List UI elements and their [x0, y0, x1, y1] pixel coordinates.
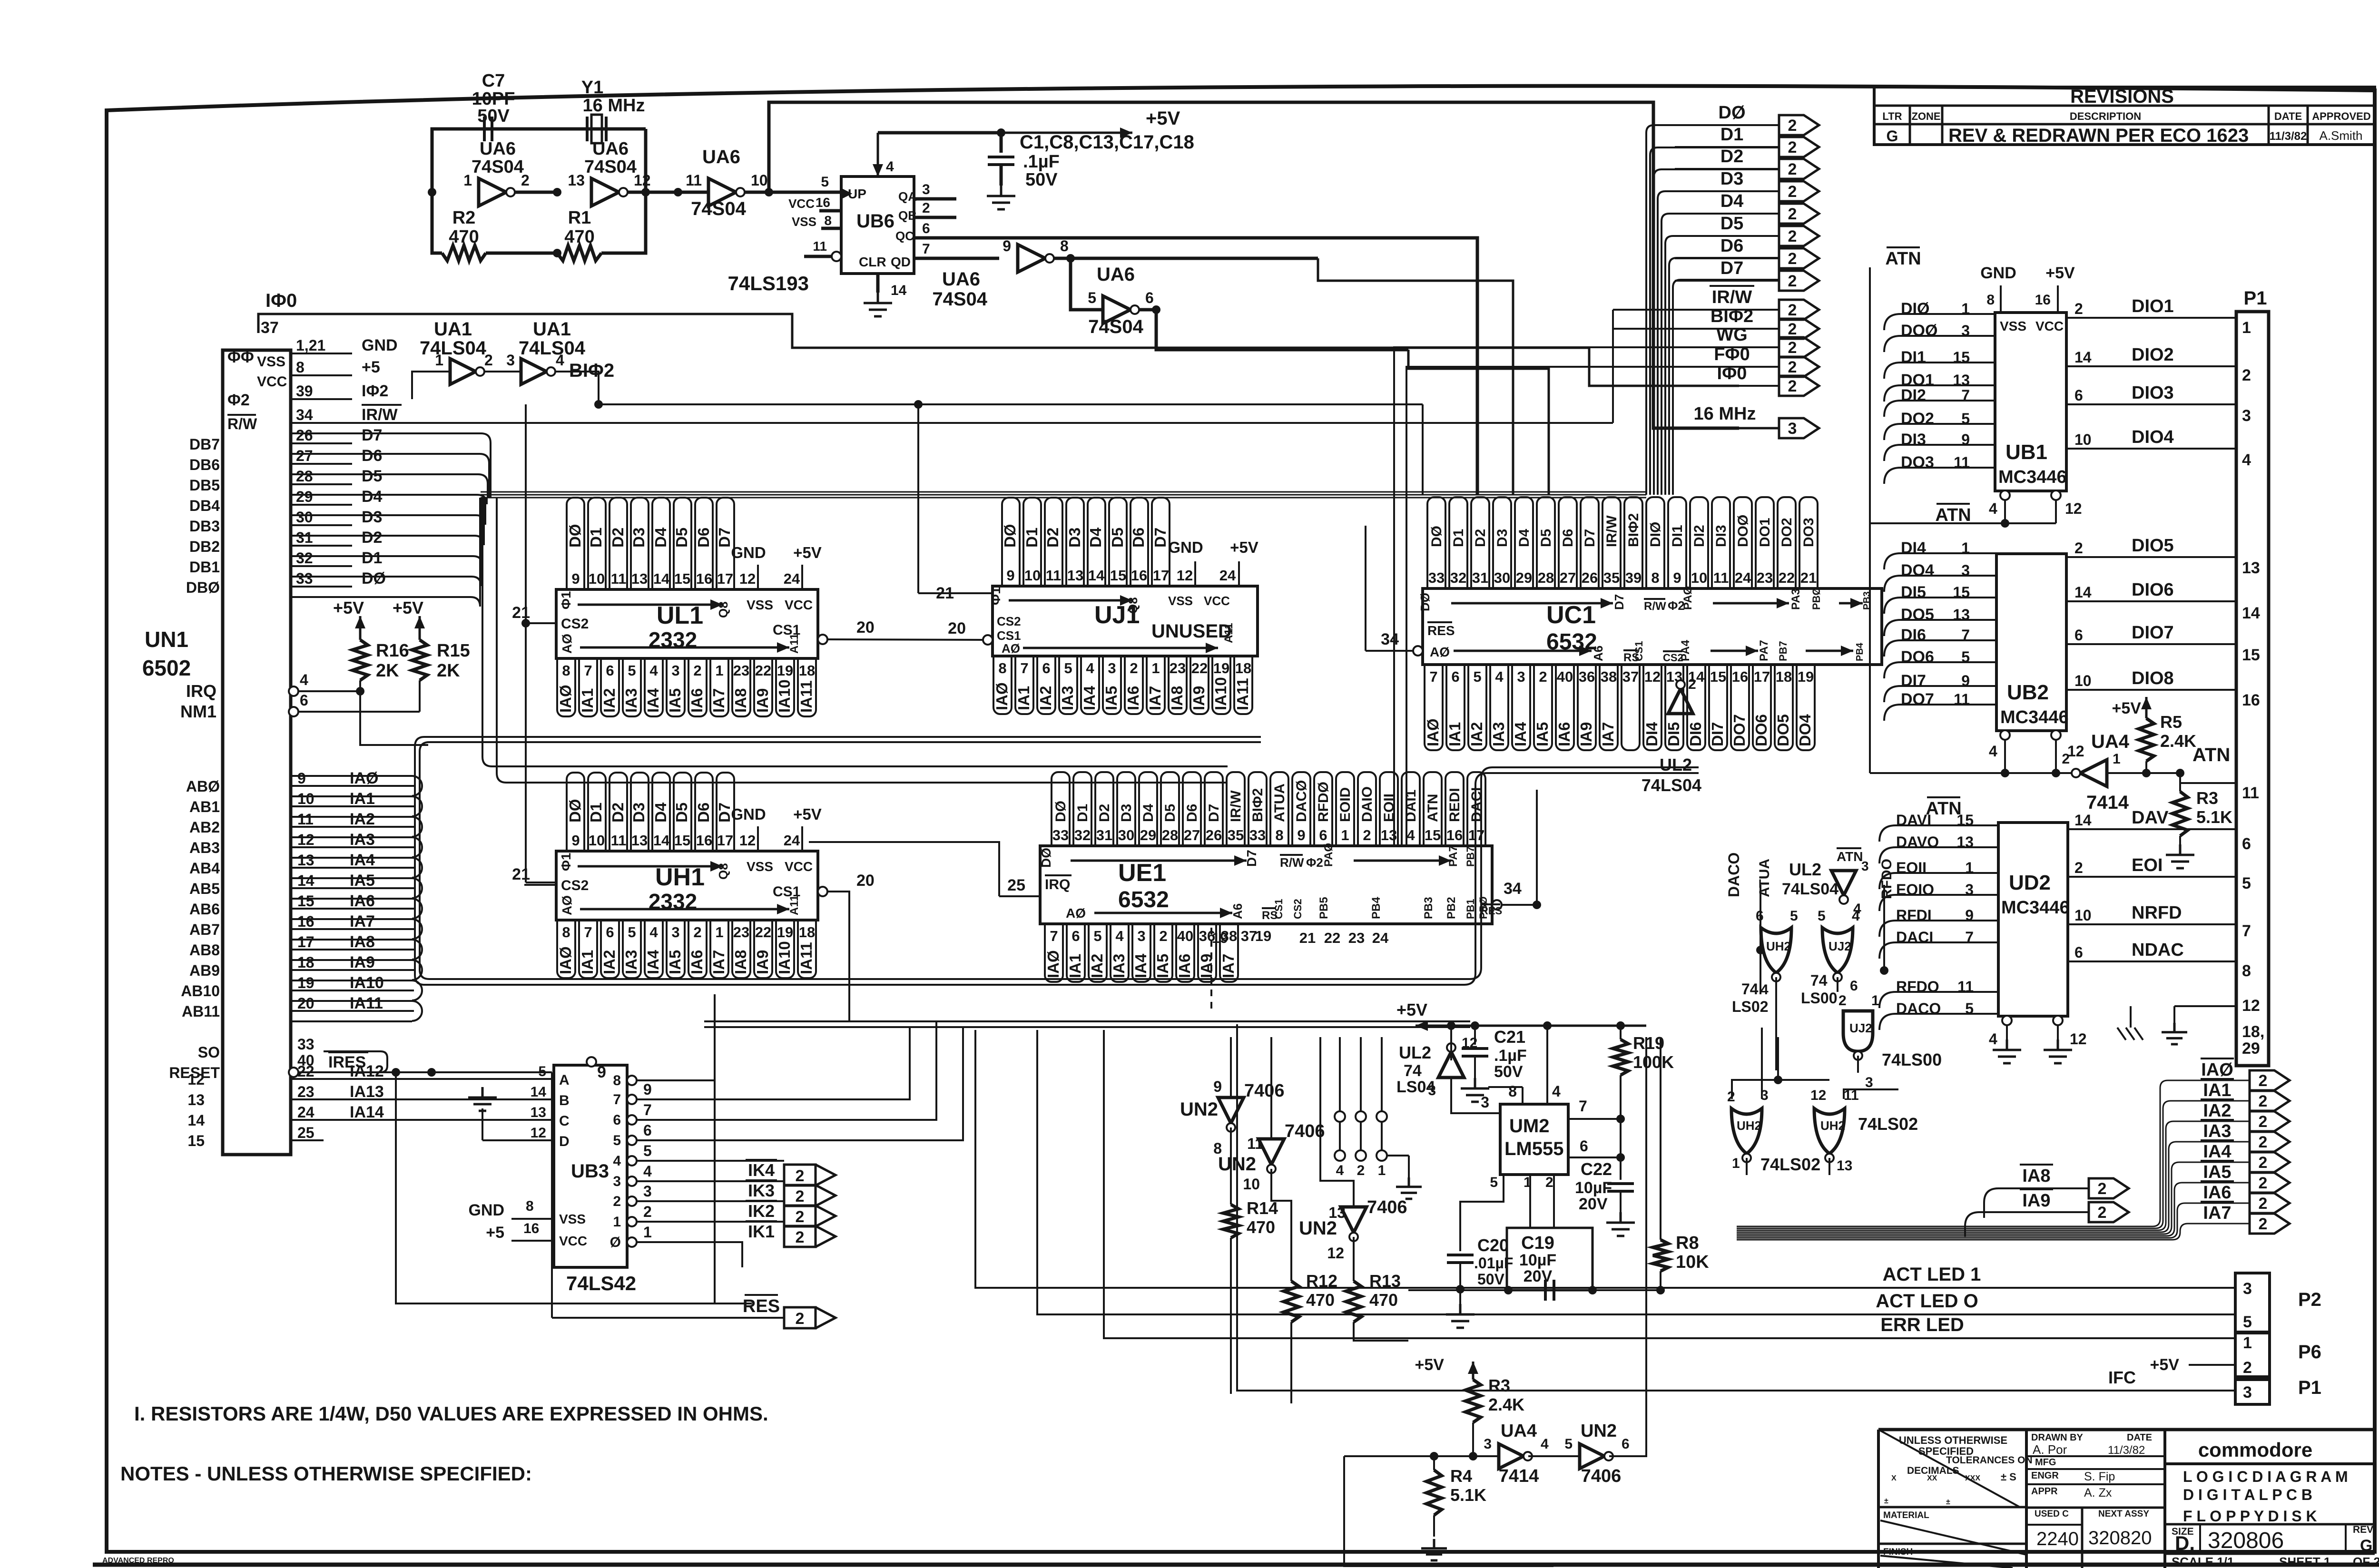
- svg-text:10µF: 10µF: [1575, 1179, 1612, 1197]
- svg-text:22: 22: [1779, 569, 1795, 586]
- svg-text:DB5: DB5: [189, 477, 220, 494]
- svg-text:DIO5: DIO5: [2132, 536, 2174, 556]
- svg-text:10: 10: [2074, 431, 2092, 448]
- svg-text:USED C: USED C: [2035, 1509, 2069, 1519]
- svg-text:IΦ0: IΦ0: [265, 290, 297, 311]
- svg-text:4: 4: [1115, 928, 1124, 944]
- svg-text:DIO4: DIO4: [2132, 427, 2174, 447]
- svg-text:DIO2: DIO2: [2132, 345, 2174, 365]
- pin fan UL1 data: [567, 498, 584, 589]
- svg-text:1: 1: [643, 1224, 652, 1241]
- svg-text:3: 3: [1137, 928, 1145, 944]
- svg-text:D2: D2: [1097, 804, 1112, 822]
- svg-text:D3: D3: [630, 528, 648, 548]
- resistor R5: [2145, 697, 2148, 718]
- svg-text:NM1: NM1: [180, 702, 216, 721]
- svg-text:22: 22: [755, 924, 771, 941]
- resistor R19: [1613, 1039, 1628, 1075]
- svg-text:G: G: [1887, 127, 1898, 145]
- svg-text:DACO: DACO: [1725, 853, 1742, 897]
- svg-text:21: 21: [512, 604, 530, 622]
- svg-text:Φ1: Φ1: [559, 853, 573, 871]
- svg-text:8: 8: [1651, 569, 1659, 586]
- svg-text:17: 17: [717, 570, 733, 587]
- svg-text:74LS42: 74LS42: [566, 1272, 636, 1294]
- wire IA flag feed 1: [1737, 1101, 2250, 1228]
- svg-text:8: 8: [1275, 827, 1283, 843]
- svg-text:ATUA: ATUA: [1272, 784, 1288, 822]
- svg-text:IA6: IA6: [1124, 686, 1142, 710]
- resistor R14: [1223, 1205, 1239, 1238]
- svg-text:4: 4: [1852, 908, 1860, 924]
- svg-text:VSS: VSS: [747, 859, 773, 874]
- wire addr row edge 10: [291, 980, 412, 981]
- flag D2: [1779, 159, 1819, 179]
- svg-text:40: 40: [1177, 928, 1193, 944]
- wire ERR LED: [1104, 1030, 2235, 1338]
- svg-text:S. Fip: S. Fip: [2084, 1470, 2115, 1483]
- svg-text:11: 11: [2242, 784, 2259, 802]
- svg-text:DB2: DB2: [189, 538, 220, 555]
- svg-text:4: 4: [886, 159, 894, 175]
- svg-text:22: 22: [297, 1063, 315, 1080]
- svg-text:2: 2: [643, 1203, 652, 1220]
- inverter UA4 bottom: [1499, 1444, 1524, 1469]
- svg-text:13: 13: [1837, 1158, 1852, 1174]
- svg-text:4: 4: [649, 662, 658, 679]
- svg-text:AØ: AØ: [560, 634, 574, 654]
- svg-text:AØ: AØ: [1002, 641, 1020, 656]
- svg-text:12: 12: [2242, 997, 2260, 1015]
- wire ATUA down: [1760, 885, 1761, 994]
- svg-text:19: 19: [297, 974, 315, 991]
- resistor R2: [442, 245, 486, 261]
- wire D7 flag drop: [1673, 280, 1779, 495]
- svg-text:IA9: IA9: [1577, 722, 1595, 746]
- driver UD2 box: [1998, 823, 2068, 1016]
- svg-text:IA3: IA3: [350, 831, 375, 849]
- svg-text:XX: XX: [1927, 1474, 1937, 1482]
- svg-text:UH1: UH1: [655, 863, 705, 891]
- svg-text:+5: +5: [486, 1224, 504, 1242]
- svg-text:20V: 20V: [1524, 1267, 1553, 1285]
- wire UL2 up out: [1450, 1026, 1452, 1060]
- svg-text:ADVANCED REPRO: ADVANCED REPRO: [102, 1557, 174, 1565]
- wire vertical x1502: [714, 994, 716, 1303]
- svg-text:IR/W: IR/W: [362, 406, 398, 424]
- svg-text:DI7: DI7: [1901, 672, 1926, 690]
- svg-text:D2: D2: [609, 528, 627, 548]
- wire addr row edge 12: [291, 1020, 412, 1022]
- svg-text:DØ: DØ: [362, 569, 386, 588]
- svg-text:GND: GND: [731, 544, 766, 561]
- pin fan UE1 bottom: [1045, 924, 1063, 982]
- svg-text:DO6: DO6: [1901, 648, 1934, 666]
- svg-text:UE1: UE1: [1118, 859, 1166, 887]
- svg-text:Φ2: Φ2: [227, 391, 250, 409]
- svg-text:2: 2: [1838, 993, 1847, 1009]
- svg-text:IA6: IA6: [1176, 954, 1193, 978]
- capacitor C7: [484, 117, 492, 141]
- flag D7: [1779, 271, 1819, 291]
- svg-text:6: 6: [1850, 978, 1858, 994]
- svg-text:50V: 50V: [1494, 1063, 1523, 1081]
- svg-text:35: 35: [1603, 569, 1620, 586]
- svg-text:C7: C7: [482, 71, 505, 91]
- svg-text:27: 27: [1560, 569, 1576, 586]
- svg-text:DO4: DO4: [1901, 561, 1934, 579]
- wire addr row cap 3: [412, 837, 422, 857]
- svg-text:6: 6: [643, 1122, 652, 1139]
- svg-text:D7: D7: [1151, 528, 1169, 548]
- svg-text:6: 6: [1756, 908, 1764, 924]
- svg-text:5.1K: 5.1K: [1450, 1485, 1486, 1505]
- svg-text:+5V: +5V: [2150, 1356, 2180, 1374]
- svg-text:2: 2: [2259, 1215, 2268, 1233]
- svg-text:DIO8: DIO8: [2132, 668, 2174, 688]
- svg-text:UNUSED: UNUSED: [1151, 621, 1232, 642]
- svg-text:2: 2: [796, 1228, 805, 1246]
- flag D6: [1779, 248, 1819, 268]
- svg-text:8: 8: [824, 213, 832, 228]
- svg-text:9: 9: [1006, 567, 1014, 584]
- nor gate UH2b: [1731, 1108, 1762, 1154]
- svg-text:CS1: CS1: [1273, 899, 1285, 919]
- inverter UA6 pin11-10: [708, 178, 736, 206]
- connector P2 box: [2235, 1273, 2270, 1332]
- svg-text:AB9: AB9: [189, 962, 220, 979]
- svg-text:3: 3: [1861, 859, 1869, 873]
- svg-text:24: 24: [297, 1104, 315, 1121]
- inverter UN2 c: [1341, 1207, 1366, 1233]
- wire inv1 out: [515, 191, 557, 194]
- svg-text:24: 24: [1219, 567, 1236, 584]
- svg-text:2: 2: [2259, 1092, 2268, 1110]
- svg-text:8: 8: [1508, 1083, 1517, 1100]
- svg-text:6: 6: [2074, 627, 2083, 644]
- svg-text:30: 30: [296, 509, 313, 526]
- svg-text:QA: QA: [898, 189, 917, 204]
- svg-text:74LS02: 74LS02: [1858, 1114, 1918, 1134]
- svg-text:DØ: DØ: [1053, 801, 1069, 822]
- wire inv2 out: [628, 191, 708, 194]
- inverter UN2 bottom: [1580, 1444, 1604, 1469]
- svg-text:10: 10: [589, 832, 605, 849]
- svg-text:IFC: IFC: [2108, 1368, 2136, 1387]
- svg-text:DI3: DI3: [1901, 431, 1926, 449]
- svg-text:23: 23: [733, 924, 749, 941]
- flag IΦ0: [1779, 376, 1819, 396]
- svg-text:10: 10: [2074, 672, 2092, 689]
- wire to flag BIΦ2: [1613, 328, 1779, 330]
- svg-text:15: 15: [1425, 827, 1441, 843]
- svg-text:IA9: IA9: [350, 953, 375, 971]
- flag IA2 symbol: [2250, 1111, 2290, 1131]
- svg-text:4: 4: [1086, 660, 1094, 676]
- svg-text:2: 2: [2074, 859, 2083, 876]
- svg-text:BIΦ2: BIΦ2: [1626, 513, 1642, 547]
- svg-text:2: 2: [613, 1194, 621, 1209]
- svg-text:IA1: IA1: [1066, 954, 1084, 978]
- wire R15 to NMI: [419, 680, 421, 712]
- svg-text:11: 11: [611, 570, 627, 587]
- svg-text:ATN: ATN: [1935, 505, 1971, 525]
- svg-text:50V: 50V: [1025, 170, 1058, 190]
- svg-text:C19: C19: [1521, 1233, 1554, 1253]
- wire IFC: [1237, 1024, 2235, 1391]
- wire data row edge 3: [291, 495, 487, 504]
- svg-text:28: 28: [296, 468, 313, 485]
- svg-text:470: 470: [564, 227, 594, 247]
- wire UB3 out8: [685, 1079, 714, 1081]
- svg-text:IA9: IA9: [1190, 686, 1208, 710]
- wire D6 flag drop: [1669, 258, 1779, 495]
- svg-text:2: 2: [1788, 272, 1797, 290]
- svg-text:A6: A6: [1591, 646, 1605, 661]
- svg-text:D1: D1: [1075, 804, 1091, 822]
- pin fan UH1 data: [567, 773, 584, 851]
- svg-text:7: 7: [1050, 928, 1058, 944]
- svg-text:XXX: XXX: [1965, 1474, 1980, 1482]
- ground under UD2 right: [2044, 1039, 2072, 1063]
- svg-text:QC: QC: [895, 229, 914, 243]
- svg-text:DØ: DØ: [566, 524, 584, 548]
- resistor R12: [1284, 1281, 1299, 1322]
- svg-text:DACI: DACI: [1469, 787, 1484, 822]
- svg-text:12: 12: [739, 832, 756, 849]
- svg-text:1: 1: [435, 352, 443, 369]
- svg-text:8: 8: [562, 662, 570, 679]
- wire addr row cap 9: [412, 960, 422, 980]
- svg-text:+5V: +5V: [1146, 108, 1180, 129]
- svg-text:2: 2: [484, 352, 493, 369]
- wire addr row cap 6: [412, 899, 422, 919]
- svg-text:IAØ: IAØ: [2201, 1060, 2233, 1080]
- svg-text:PA4: PA4: [1679, 639, 1692, 661]
- svg-text:27: 27: [1184, 827, 1200, 843]
- svg-text:33: 33: [1428, 569, 1445, 586]
- svg-text:7: 7: [922, 241, 930, 257]
- svg-text:A.Smith: A.Smith: [2319, 128, 2362, 143]
- svg-text:VSS: VSS: [1168, 594, 1193, 608]
- svg-text:12: 12: [1810, 1088, 1826, 1103]
- UD2 bottom pins: [2002, 1016, 2012, 1025]
- svg-text:2: 2: [1788, 339, 1797, 357]
- svg-text:UD2: UD2: [2009, 871, 2051, 894]
- svg-text:9: 9: [571, 832, 580, 849]
- wire oscillator bottom left: [432, 192, 442, 253]
- svg-text:19: 19: [777, 924, 793, 941]
- driver UB1 box: [1995, 313, 2066, 491]
- svg-text:A11: A11: [1222, 623, 1235, 643]
- svg-text:1: 1: [2113, 751, 2121, 767]
- svg-text:IA2: IA2: [1088, 954, 1106, 978]
- svg-text:IA11: IA11: [797, 680, 815, 713]
- svg-text:11/3/82: 11/3/82: [2108, 1444, 2145, 1457]
- svg-text:DO7: DO7: [1901, 690, 1934, 708]
- svg-text:14: 14: [653, 570, 670, 587]
- svg-text:BIΦ2: BIΦ2: [1250, 788, 1266, 822]
- svg-text:IRQ: IRQ: [186, 681, 216, 701]
- svg-text:X: X: [1891, 1474, 1897, 1482]
- svg-text:6: 6: [1622, 1436, 1630, 1452]
- svg-text:29: 29: [2242, 1039, 2260, 1058]
- wire IO2 to UA1: [412, 372, 450, 399]
- svg-text:IA9: IA9: [1198, 954, 1215, 978]
- svg-text:DO2: DO2: [1779, 518, 1795, 547]
- svg-text:D7: D7: [362, 426, 382, 444]
- wire data row edge 7: [291, 498, 481, 586]
- riot UE1 box: [1040, 846, 1492, 924]
- svg-text:23: 23: [297, 1083, 315, 1100]
- svg-text:1: 1: [1378, 1163, 1386, 1178]
- wire data row edge 4: [291, 498, 485, 525]
- svg-text:14: 14: [891, 283, 907, 298]
- svg-text:3: 3: [671, 662, 679, 679]
- svg-text:IA6: IA6: [350, 892, 375, 910]
- svg-text:D5: D5: [362, 467, 382, 485]
- svg-text:12: 12: [1462, 1035, 1477, 1051]
- svg-text:74S04: 74S04: [691, 198, 746, 219]
- svg-text:Φ2: Φ2: [1306, 855, 1323, 870]
- svg-text:12: 12: [1644, 668, 1661, 685]
- svg-text:10µF: 10µF: [1519, 1251, 1556, 1269]
- svg-text:7414: 7414: [1499, 1466, 1539, 1486]
- svg-text:IA2: IA2: [600, 950, 618, 974]
- svg-text:12: 12: [2070, 1030, 2087, 1048]
- svg-text:6: 6: [1042, 660, 1050, 676]
- svg-text:9: 9: [297, 770, 306, 787]
- svg-text:UB1: UB1: [2005, 441, 2047, 464]
- svg-text:C21: C21: [1494, 1027, 1525, 1047]
- svg-text:15: 15: [1110, 567, 1126, 584]
- svg-text:11: 11: [686, 172, 702, 189]
- svg-text:8: 8: [562, 924, 570, 941]
- flag D1: [1779, 137, 1819, 157]
- svg-text:100K: 100K: [1633, 1052, 1674, 1072]
- wire to inv5: [1071, 258, 1103, 310]
- svg-text:2: 2: [2259, 1154, 2268, 1172]
- svg-text:CS1: CS1: [773, 622, 800, 638]
- svg-text:MFG: MFG: [2035, 1457, 2056, 1468]
- svg-text:EOI: EOI: [2132, 855, 2163, 875]
- svg-text:R3: R3: [2196, 788, 2218, 808]
- svg-text:15: 15: [674, 832, 690, 849]
- svg-text:PAØ: PAØ: [1322, 843, 1335, 867]
- wire data row edge 1: [291, 454, 489, 498]
- svg-text:PB2: PB2: [1445, 897, 1458, 919]
- svg-text:EOID: EOID: [1337, 787, 1353, 822]
- svg-text:IA6: IA6: [688, 688, 706, 713]
- timer UM2 box: [1500, 1104, 1568, 1175]
- flag IA9 symbol: [2089, 1202, 2129, 1222]
- wire bottom bus C19: [1408, 1289, 1661, 1291]
- svg-text:UNLESS OTHERWISE: UNLESS OTHERWISE: [1899, 1434, 2007, 1446]
- svg-text:26: 26: [1206, 827, 1222, 843]
- svg-text:7: 7: [643, 1101, 652, 1118]
- wire UB6 pin4 to +5V rail: [878, 131, 1001, 135]
- svg-text:4: 4: [1541, 1436, 1549, 1452]
- wire RFDO down: [1883, 885, 1885, 970]
- svg-text:16: 16: [523, 1221, 539, 1236]
- svg-text:IAØ: IAØ: [1424, 718, 1442, 746]
- svg-text:11: 11: [1046, 567, 1062, 584]
- svg-text:74LS04: 74LS04: [420, 338, 487, 359]
- svg-text:19: 19: [1255, 928, 1271, 944]
- svg-text:C1,C8,C13,C17,C18: C1,C8,C13,C17,C18: [1020, 132, 1194, 153]
- inverter UA4 7414: [2080, 760, 2107, 786]
- wire IRQ down: [360, 691, 428, 745]
- capacitor C21: [1474, 1026, 1476, 1045]
- wire IA flag feed 5: [1737, 1183, 2250, 1236]
- svg-text:5: 5: [821, 174, 829, 190]
- svg-text:16: 16: [696, 570, 712, 587]
- svg-text:IAØ: IAØ: [557, 685, 574, 713]
- svg-text:D7: D7: [1244, 850, 1259, 867]
- inverter UL2 under UC1: [1668, 689, 1693, 714]
- svg-text:ATN: ATN: [2192, 745, 2230, 765]
- title block material cell: [1878, 1506, 2026, 1509]
- svg-text:D6: D6: [362, 447, 382, 465]
- svg-text:DØ: DØ: [1418, 593, 1432, 611]
- svg-text:3: 3: [643, 1183, 652, 1200]
- svg-text:16 MHz: 16 MHz: [583, 96, 645, 116]
- svg-text:74LS193: 74LS193: [728, 272, 809, 294]
- svg-text:IA12: IA12: [350, 1062, 384, 1080]
- svg-text:14: 14: [653, 832, 670, 849]
- resistor R3: [2173, 792, 2188, 836]
- wire addr row cap 2: [412, 817, 422, 837]
- wire oscillator right side: [644, 129, 648, 192]
- inverter UA1 a: [450, 359, 476, 384]
- wire ctrl rail a: [704, 1020, 1470, 1022]
- wire addr row edge 11: [291, 1000, 412, 1002]
- wire BIO2 out: [556, 372, 1423, 404]
- svg-text:UA6: UA6: [942, 269, 980, 290]
- svg-text:14: 14: [2074, 812, 2092, 829]
- bottom scan edge line: [93, 1563, 2379, 1567]
- wire UJ2b out: [1857, 1056, 1859, 1073]
- svg-text:UC1: UC1: [1546, 601, 1596, 629]
- svg-text:14: 14: [531, 1084, 547, 1100]
- svg-text:16: 16: [2035, 292, 2051, 308]
- svg-text:6: 6: [2074, 944, 2083, 961]
- svg-text:26: 26: [296, 427, 313, 444]
- svg-text:24: 24: [1372, 930, 1389, 946]
- svg-text:TOLERANCES ON: TOLERANCES ON: [1946, 1455, 2033, 1466]
- resistor R8: [1660, 1037, 1661, 1240]
- svg-text:IA4: IA4: [644, 688, 662, 713]
- svg-text:SHEET 1: SHEET 1: [2279, 1555, 2330, 1568]
- svg-text:74S04: 74S04: [932, 289, 987, 310]
- svg-text:AB6: AB6: [189, 901, 220, 918]
- pin fan UC1 top: [1427, 497, 1445, 588]
- svg-text:IA7: IA7: [710, 688, 727, 713]
- +5V arrow top: [1001, 132, 1132, 134]
- svg-text:±: ±: [1946, 1498, 1950, 1506]
- resistor R13: [1346, 1281, 1361, 1322]
- svg-text:RFDØ: RFDØ: [1316, 782, 1331, 822]
- wire IA flag feed 7: [1737, 1224, 2250, 1240]
- svg-text:RES: RES: [1427, 623, 1455, 638]
- svg-text:DI7: DI7: [1709, 722, 1726, 746]
- svg-text:UL2: UL2: [1399, 1043, 1431, 1062]
- svg-text:2: 2: [1788, 227, 1797, 245]
- svg-text:32: 32: [1074, 827, 1091, 843]
- svg-text:2.4K: 2.4K: [2160, 731, 2196, 751]
- wire inv5 out: [1140, 310, 1408, 350]
- wire data rail R1 0: [481, 491, 1646, 493]
